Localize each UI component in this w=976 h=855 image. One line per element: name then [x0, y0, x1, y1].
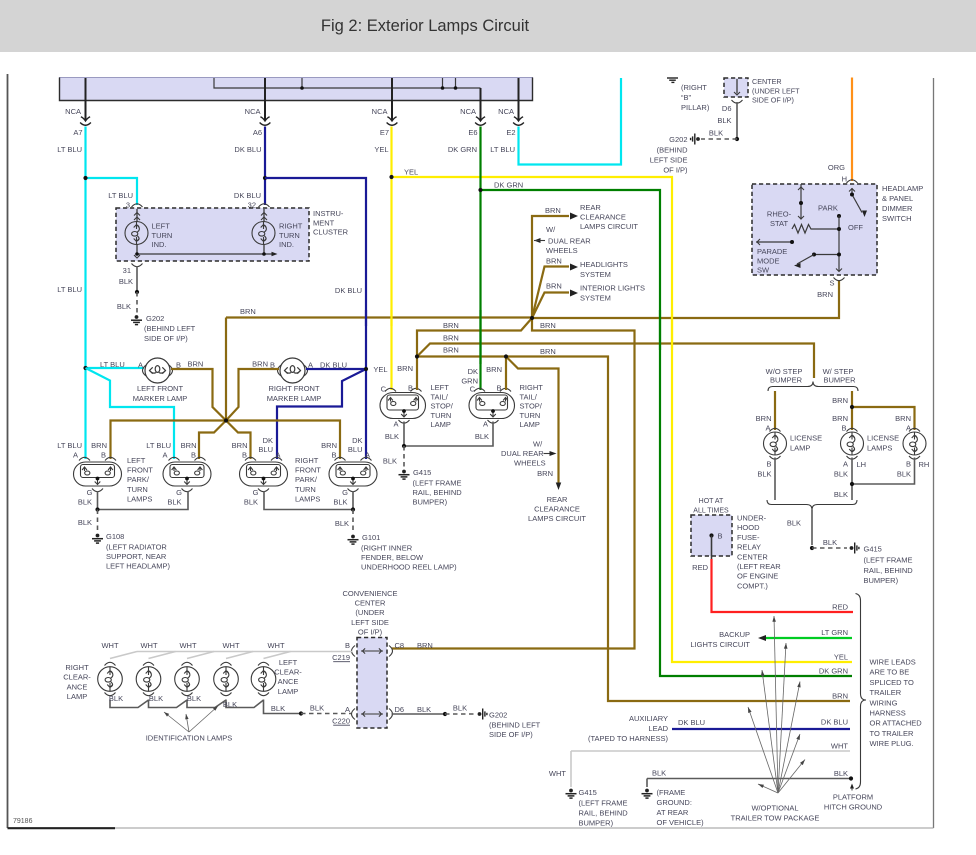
svg-text:(LEFT RADIATOR: (LEFT RADIATOR [106, 543, 167, 552]
wire DK GRN right run (over brn rows) [659, 310, 661, 350]
wire BLK dashed to C220 [301, 713, 351, 715]
wire block output E6 [480, 88, 482, 120]
wire DK GRN main run to trailer area [481, 190, 853, 676]
svg-text:E7: E7 [380, 128, 389, 137]
svg-text:BRN: BRN [397, 364, 413, 373]
svg-text:CONVENIENCE: CONVENIENCE [342, 589, 397, 598]
svg-text:BRN: BRN [321, 441, 337, 450]
svg-text:RIGHT: RIGHT [295, 456, 319, 465]
ground G202 tap behind left side of I/P (top) [691, 134, 700, 145]
svg-text:IDENTIFICATION LAMPS: IDENTIFICATION LAMPS [146, 734, 233, 743]
cluster pin 31 connector [134, 255, 140, 258]
wire block output A7 [85, 78, 87, 120]
svg-text:LEFT FRONT: LEFT FRONT [137, 384, 184, 393]
svg-text:RIGHT: RIGHT [279, 222, 303, 231]
svg-text:DK BLU: DK BLU [678, 718, 705, 727]
svg-text:C219: C219 [332, 653, 350, 662]
svg-text:PARK/: PARK/ [127, 475, 150, 484]
svg-text:BLK: BLK [244, 498, 258, 507]
svg-text:BUMPER): BUMPER) [864, 576, 899, 585]
wire D6 inside box [736, 79, 738, 94]
wire WHT trailer lead [571, 750, 850, 752]
svg-text:A6: A6 [253, 128, 262, 137]
svg-text:Fig 2: Exterior Lamps Circuit: Fig 2: Exterior Lamps Circuit [321, 17, 530, 35]
w/optional trailer tow package callout arrows [774, 616, 778, 793]
svg-text:OF ENGINE: OF ENGINE [737, 572, 778, 581]
wire BLK dashed to G202 tap [701, 138, 737, 140]
svg-text:PARK/: PARK/ [295, 475, 318, 484]
connector E7 (NCA) [387, 117, 398, 125]
svg-text:LAMPS CIRCUIT: LAMPS CIRCUIT [528, 514, 586, 523]
svg-text:B: B [101, 451, 106, 460]
svg-text:C: C [470, 385, 476, 394]
svg-text:WHT: WHT [831, 742, 848, 751]
svg-text:BLK: BLK [167, 498, 181, 507]
svg-text:LEFT: LEFT [431, 383, 450, 392]
svg-text:LAMPS: LAMPS [867, 444, 892, 453]
svg-text:NCA: NCA [372, 107, 388, 116]
node license ground splice [810, 546, 814, 550]
svg-text:TRAILER: TRAILER [870, 688, 902, 697]
svg-text:TO TRAILER: TO TRAILER [870, 729, 914, 738]
svg-text:DK BLU: DK BLU [821, 718, 848, 727]
svg-text:RIGHT: RIGHT [65, 663, 89, 672]
svg-text:STOP/: STOP/ [431, 402, 454, 411]
svg-text:BUMPER): BUMPER) [413, 498, 448, 507]
svg-text:DUAL REAR: DUAL REAR [548, 237, 591, 246]
wire WHT clearance lamp bus [137, 651, 352, 653]
wire BLK D6 to G202 [736, 102, 738, 139]
svg-text:C220: C220 [332, 717, 350, 726]
svg-text:BRN: BRN [832, 414, 848, 423]
svg-text:BLK: BLK [652, 769, 666, 778]
wire BRN row 2 to left tail B splice [417, 318, 532, 357]
headlamp & panel dimmer switch box [752, 184, 877, 275]
wire DK GRN (over brn rows) [479, 310, 481, 364]
svg-text:BRN: BRN [545, 206, 561, 215]
wire BLK park lamps 3-4 ground run [264, 491, 353, 510]
svg-text:TURN: TURN [431, 411, 452, 420]
switch S terminal connector [834, 278, 845, 281]
fuse B terminal [709, 533, 713, 537]
svg-text:AUXILIARY: AUXILIARY [629, 714, 668, 723]
node E7 splice [389, 175, 393, 179]
svg-text:DK GRN: DK GRN [819, 667, 848, 676]
svg-text:BLK: BLK [78, 498, 92, 507]
wire BRN w/ step bumper branch [851, 391, 853, 430]
node E6 splice [478, 188, 482, 192]
svg-text:HOOD: HOOD [737, 523, 760, 532]
ground G415 left frame rail (license lamps) [850, 543, 859, 554]
svg-text:E6: E6 [468, 128, 477, 137]
wire BRN branch to rear clearance lamps circuit arrow [506, 357, 559, 483]
connector A7 (NCA) [80, 117, 91, 125]
svg-text:CLEAR-: CLEAR- [63, 673, 91, 682]
svg-text:DK GRN: DK GRN [448, 145, 477, 154]
node on inner bus x=302 [300, 86, 304, 90]
svg-text:YEL: YEL [834, 653, 848, 662]
svg-text:WHT: WHT [101, 641, 118, 650]
svg-text:SIDE OF I/P): SIDE OF I/P) [144, 334, 188, 343]
svg-text:G: G [253, 488, 259, 497]
svg-text:BRN: BRN [817, 290, 833, 299]
wire BLK from D6 to G202 [392, 713, 446, 715]
svg-text:A: A [345, 705, 350, 714]
wire BLK brace stem [811, 510, 813, 546]
svg-text:OFF: OFF [848, 223, 863, 232]
switch lower contact arm [814, 254, 839, 256]
svg-text:LAMP: LAMP [790, 444, 810, 453]
svg-text:LT BLU: LT BLU [490, 145, 515, 154]
wire LT GRN backup lights circuit [764, 637, 852, 639]
svg-text:CENTER: CENTER [737, 552, 768, 561]
svg-text:SUPPORT, NEAR: SUPPORT, NEAR [106, 552, 167, 561]
svg-text:DK BLU: DK BLU [234, 191, 261, 200]
svg-text:DK BLU: DK BLU [335, 286, 362, 295]
svg-text:W/OPTIONAL: W/OPTIONAL [751, 804, 798, 813]
svg-text:B: B [242, 451, 247, 460]
svg-text:BLK: BLK [757, 470, 771, 479]
svg-text:BRN: BRN [232, 441, 248, 450]
svg-text:BLK: BLK [78, 518, 92, 527]
svg-text:PARADE: PARADE [757, 247, 787, 256]
svg-text:HEADLIGHTS: HEADLIGHTS [580, 260, 628, 269]
power distribution block (top bus bar) [60, 78, 533, 101]
svg-text:IND.: IND. [152, 240, 167, 249]
svg-text:BRN: BRN [91, 441, 107, 450]
svg-text:LEFT: LEFT [279, 658, 298, 667]
svg-text:G: G [342, 488, 348, 497]
node X junction [224, 418, 228, 422]
svg-text:LEFT: LEFT [152, 222, 171, 231]
park/turn lamp 1 (left front) [79, 457, 90, 460]
wire BRN X to park lamp 4 B [226, 421, 340, 460]
svg-text:TURN: TURN [279, 231, 300, 240]
svg-text:G202: G202 [669, 135, 687, 144]
wire DK BLU A6 to cluster pin 32 [264, 178, 266, 205]
identification lamp 3 [221, 662, 232, 665]
wire BRN branch to headlights system [532, 267, 569, 319]
right turn indicator lamp [263, 209, 265, 222]
svg-text:STOP/: STOP/ [520, 402, 543, 411]
svg-text:(BEHIND: (BEHIND [657, 146, 688, 155]
svg-text:HITCH GROUND: HITCH GROUND [824, 803, 883, 812]
license lamp middle LH [847, 428, 858, 431]
svg-text:MODE: MODE [757, 256, 780, 265]
brace wire leads spliced to trailer harness [856, 594, 867, 790]
ground G415 left frame rail [399, 470, 410, 480]
svg-text:CENTER: CENTER [355, 599, 386, 608]
svg-text:BUMPER): BUMPER) [579, 819, 614, 828]
wire BLK middle+right license lamps [852, 458, 915, 485]
wire BLK from cluster pin 31 [136, 266, 138, 292]
node marker splice LT BLU [83, 366, 87, 370]
wire BLK trailer lead [647, 778, 851, 780]
svg-text:NCA: NCA [498, 107, 514, 116]
wire DK BLU from A6 [264, 127, 266, 179]
connector arc cluster pin 3 [132, 204, 143, 207]
svg-text:LH: LH [857, 460, 867, 469]
wire RED to trailer leads [712, 559, 854, 612]
ground G108 [92, 534, 103, 544]
switch H arm with OFF position [851, 188, 853, 195]
svg-text:FENDER, BELOW: FENDER, BELOW [361, 553, 424, 562]
svg-text:WIRE PLUG.: WIRE PLUG. [870, 739, 914, 748]
svg-text:G108: G108 [106, 532, 124, 541]
svg-text:LAMP: LAMP [67, 692, 87, 701]
svg-text:HEADLAMP: HEADLAMP [882, 184, 923, 193]
switch parade mode arm [756, 241, 792, 243]
wire DK BLU auxiliary lead [672, 728, 850, 730]
svg-text:A: A [275, 451, 280, 460]
svg-text:BLU: BLU [348, 445, 363, 454]
svg-text:ANCE: ANCE [278, 677, 299, 686]
svg-text:STAT: STAT [770, 219, 788, 228]
svg-text:BLK: BLK [834, 769, 848, 778]
svg-text:BLK: BLK [333, 498, 347, 507]
node right tail B splice [504, 354, 508, 358]
svg-text:WHEELS: WHEELS [546, 246, 578, 255]
connector E6 (NCA) [475, 117, 486, 125]
svg-text:LAMPS: LAMPS [127, 494, 152, 503]
svg-text:YEL: YEL [373, 365, 387, 374]
wire WHT tap clearance lamp 5 [264, 652, 291, 659]
node tail lamp ground splice [402, 444, 406, 448]
node pin31 blk [135, 290, 139, 294]
wire WHT tap clearance lamp 1 [110, 652, 137, 659]
svg-text:CLEARANCE: CLEARANCE [534, 505, 580, 514]
svg-text:LT BLU: LT BLU [100, 360, 125, 369]
wire BLK tail lamps ground run [404, 422, 493, 447]
svg-text:BLK: BLK [149, 694, 163, 703]
svg-text:INTERIOR LIGHTS: INTERIOR LIGHTS [580, 284, 645, 293]
svg-text:TAIL/: TAIL/ [431, 392, 449, 401]
svg-text:WHT: WHT [549, 769, 566, 778]
svg-text:BLK: BLK [787, 519, 801, 528]
wire BRN to right license lamp [852, 407, 915, 430]
svg-text:BLK: BLK [417, 705, 431, 714]
wire DK GRN from E6 down to right tail lamp [479, 127, 481, 391]
svg-text:BLK: BLK [383, 457, 397, 466]
svg-text:RED: RED [832, 603, 848, 612]
left turn indicator lamp [136, 209, 138, 222]
node on inner bus x=442 [441, 86, 445, 90]
wire LT BLU from E2 [519, 78, 622, 165]
svg-text:SPLICED TO: SPLICED TO [870, 678, 914, 687]
svg-text:BRN: BRN [417, 641, 433, 650]
svg-text:A: A [483, 420, 488, 429]
svg-text:(LEFT FRAME: (LEFT FRAME [579, 799, 628, 808]
svg-text:G: G [87, 488, 93, 497]
svg-text:BRN: BRN [546, 257, 562, 266]
connector A6 (NCA) [260, 117, 271, 125]
svg-text:BLK: BLK [834, 470, 848, 479]
svg-text:RAIL, BEHIND: RAIL, BEHIND [864, 566, 914, 575]
right front marker lamp [278, 365, 282, 376]
svg-text:BUMPER: BUMPER [823, 376, 856, 385]
wire BRN row 3 to license lamps [417, 344, 814, 379]
wire BLK dashed to G202 [136, 292, 138, 313]
convenience center box [357, 638, 387, 729]
wire BRN X to park lamp 1 B [111, 421, 227, 460]
svg-text:LAMPS CIRCUIT: LAMPS CIRCUIT [580, 222, 638, 231]
node BRN main splice [530, 316, 534, 320]
wire BRN row from X junction to main splice [226, 316, 532, 318]
wire YEL (over brn row) [390, 310, 392, 326]
svg-text:RED: RED [692, 563, 708, 572]
wire DK BLU (over brn row) [365, 310, 367, 326]
svg-text:& PANEL: & PANEL [882, 194, 913, 203]
svg-text:(UNDER LEFT: (UNDER LEFT [752, 86, 800, 95]
node platform hitch ground [849, 776, 853, 780]
svg-text:TURN: TURN [127, 485, 148, 494]
underhood fuse-relay center box [691, 515, 732, 556]
svg-text:G: G [176, 488, 182, 497]
svg-text:A: A [138, 361, 143, 370]
svg-text:BLU: BLU [258, 445, 273, 454]
wire BLK park lamps 1-2 ground run [98, 491, 189, 510]
svg-text:DK: DK [352, 436, 362, 445]
svg-text:BRN: BRN [443, 346, 459, 355]
svg-text:LEFT HEADLAMP): LEFT HEADLAMP) [106, 562, 171, 571]
svg-text:BLK: BLK [271, 704, 285, 713]
svg-text:LAMP: LAMP [278, 687, 298, 696]
svg-text:LT BLU: LT BLU [57, 285, 82, 294]
ground G415 left frame rail (trailer) [566, 789, 577, 799]
svg-text:BLK: BLK [453, 704, 467, 713]
svg-text:CLUSTER: CLUSTER [313, 228, 349, 237]
svg-text:W/: W/ [533, 440, 543, 449]
svg-text:A: A [162, 451, 167, 460]
svg-text:TURN: TURN [152, 231, 173, 240]
wire BRN X to park lamp 3 B [226, 421, 251, 460]
wire BRN row to C8 convenience center feed [392, 318, 635, 649]
svg-text:LT BLU: LT BLU [57, 441, 82, 450]
svg-text:NCA: NCA [245, 107, 261, 116]
svg-text:BRN: BRN [832, 396, 848, 405]
switch rheostat arm [800, 187, 802, 220]
wire BLK dashed to G101 [352, 510, 354, 533]
svg-text:TAIL/: TAIL/ [520, 392, 538, 401]
svg-text:LEAD: LEAD [648, 724, 668, 733]
svg-text:CLEAR-: CLEAR- [274, 668, 302, 677]
wire BRN branch to interior lights system [532, 293, 569, 319]
wire BRN X junction riser to brn row [225, 318, 227, 421]
svg-text:DK: DK [468, 367, 478, 376]
svg-text:OF I/P): OF I/P) [663, 166, 688, 175]
svg-text:C8: C8 [395, 641, 405, 650]
svg-text:MARKER LAMP: MARKER LAMP [133, 394, 188, 403]
svg-text:SWITCH: SWITCH [882, 214, 912, 223]
node A6 splice [263, 176, 267, 180]
title header bar [0, 0, 976, 52]
svg-text:WIRING: WIRING [870, 698, 898, 707]
svg-text:E2: E2 [506, 128, 515, 137]
park/turn lamp 4 (right front) [335, 457, 346, 460]
svg-text:A: A [906, 424, 911, 433]
svg-text:BRN: BRN [240, 307, 256, 316]
svg-text:G101: G101 [362, 533, 380, 542]
node DK BLU splice [364, 367, 368, 371]
wire WHT tap clearance lamp 2 [149, 652, 176, 659]
svg-text:DK GRN: DK GRN [494, 181, 523, 190]
svg-text:SIDE OF I/P): SIDE OF I/P) [752, 96, 794, 105]
svg-text:DK BLU: DK BLU [234, 145, 261, 154]
svg-text:H: H [842, 175, 847, 184]
inner bus line of power block [214, 78, 481, 88]
svg-text:79186: 79186 [13, 818, 33, 825]
wire WHT tap clearance lamp 3 [187, 652, 214, 659]
svg-text:BRN: BRN [443, 334, 459, 343]
svg-text:TURN: TURN [295, 485, 316, 494]
svg-text:TRAILER TOW PACKAGE: TRAILER TOW PACKAGE [731, 814, 820, 823]
svg-text:(LEFT FRAME: (LEFT FRAME [413, 479, 462, 488]
node G101 splice [351, 507, 355, 511]
svg-text:BUMPER: BUMPER [770, 376, 803, 385]
svg-text:UNDER-: UNDER- [737, 514, 767, 523]
svg-text:B: B [906, 460, 911, 469]
wire LT BLU to left park lamp 2 [86, 368, 175, 459]
wire DK BLU cluster splice to front lamps [265, 178, 366, 459]
svg-text:LIGHTS CIRCUIT: LIGHTS CIRCUIT [690, 640, 750, 649]
wire DK BLU marker lamp A [306, 368, 366, 370]
svg-text:RIGHT: RIGHT [520, 383, 544, 392]
node G108 splice [95, 507, 99, 511]
svg-text:RELAY: RELAY [737, 543, 761, 552]
connector E2 (NCA) [513, 117, 524, 125]
svg-text:LT GRN: LT GRN [821, 628, 848, 637]
svg-text:A: A [73, 451, 78, 460]
wire BRN to left tail lamp B [416, 357, 418, 391]
svg-text:PLATFORM: PLATFORM [833, 793, 873, 802]
svg-text:BLK: BLK [119, 277, 133, 286]
svg-text:BLK: BLK [385, 432, 399, 441]
svg-text:WHT: WHT [140, 641, 157, 650]
svg-text:SYSTEM: SYSTEM [580, 294, 611, 303]
svg-text:BLK: BLK [109, 694, 123, 703]
ground G101 [348, 535, 359, 545]
svg-text:S: S [829, 279, 834, 288]
svg-text:(TAPED TO HARNESS): (TAPED TO HARNESS) [588, 734, 669, 743]
wire DK BLU branch to right park lamp 3 [277, 369, 366, 459]
svg-text:G415: G415 [413, 468, 431, 477]
ground G202 tap (behind left side of I/P) [478, 709, 487, 720]
wire BLK drop to frame ground [646, 779, 648, 788]
svg-text:BLK: BLK [717, 116, 731, 125]
wire BRN left marker to X junction [171, 369, 226, 421]
svg-text:LEFT SIDE: LEFT SIDE [650, 156, 688, 165]
svg-text:BLK: BLK [335, 519, 349, 528]
svg-text:BLK: BLK [475, 432, 489, 441]
node left tail B splice [415, 354, 419, 358]
wire BRN w/o step bumper branch [774, 391, 776, 430]
svg-text:FRONT: FRONT [295, 466, 321, 475]
svg-text:D6: D6 [722, 104, 732, 113]
svg-text:SW: SW [757, 266, 770, 275]
svg-text:ALL TIMES: ALL TIMES [693, 508, 729, 515]
switch rheostat resistor [792, 225, 839, 234]
svg-text:HARNESS: HARNESS [870, 709, 906, 718]
svg-text:HOT AT: HOT AT [699, 498, 724, 505]
svg-text:LT BLU: LT BLU [146, 441, 171, 450]
left front marker lamp [86, 367, 145, 369]
instrument cluster box [116, 208, 309, 261]
svg-text:A: A [843, 460, 848, 469]
svg-text:D6: D6 [395, 705, 405, 714]
wire YEL from E7 down to left tail lamp [390, 127, 392, 391]
svg-text:BRN: BRN [540, 321, 556, 330]
wire fuse B lead [711, 536, 713, 561]
